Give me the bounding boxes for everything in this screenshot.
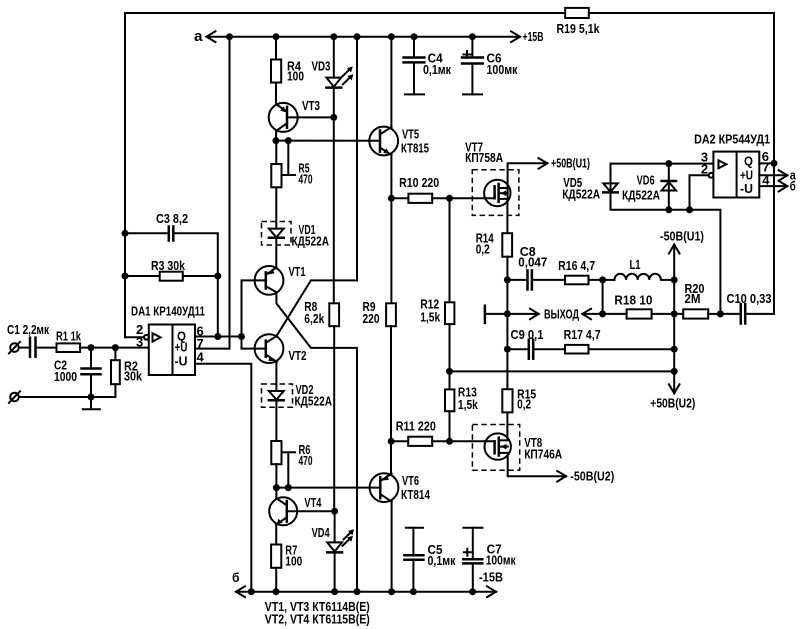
wire VT1/VT2 base column <box>242 280 266 348</box>
resistor R5 with tap <box>271 141 312 229</box>
resistor R2 <box>19 348 142 397</box>
capacitor C3 <box>125 212 218 337</box>
capacitor C6 polarized <box>462 37 518 95</box>
svg-text:КД522А: КД522А <box>562 188 600 202</box>
svg-text:КД522А: КД522А <box>622 189 660 203</box>
wire L1 tap down <box>599 280 606 318</box>
svg-text:КД522А: КД522А <box>295 395 333 409</box>
DA2 pin 4 output b <box>759 173 796 194</box>
svg-text:a: a <box>194 28 203 45</box>
R12/R13 column wires <box>446 195 453 445</box>
inductor L1 <box>599 258 678 284</box>
DA2 pin 3 <box>701 149 708 164</box>
svg-text:+15B: +15B <box>523 30 544 44</box>
node b / -15V rail <box>232 570 503 597</box>
svg-text:VT1: VT1 <box>289 265 306 279</box>
wire VT2 emitter down <box>275 361 278 391</box>
svg-text:C10 0,33: C10 0,33 <box>727 292 772 306</box>
svg-text:+U: +U <box>740 168 753 182</box>
svg-text:6,2k: 6,2k <box>304 312 324 326</box>
svg-text:100мк: 100мк <box>487 63 519 77</box>
resistor R15 <box>502 349 536 440</box>
node a / +15V rail <box>194 28 544 45</box>
svg-text:-50B(U1): -50B(U1) <box>660 229 704 243</box>
svg-text:R18 10: R18 10 <box>614 294 652 308</box>
resistor R1 <box>56 330 149 353</box>
resistor R3 <box>125 259 218 281</box>
svg-text:C3 8,2: C3 8,2 <box>156 212 188 226</box>
svg-text:VT3: VT3 <box>302 99 320 113</box>
ground <box>83 397 100 409</box>
svg-text:R12: R12 <box>420 298 439 312</box>
wire DA2 pin2 branch <box>690 173 714 210</box>
wire top feedback bus <box>125 13 774 337</box>
svg-text:C9 0,1: C9 0,1 <box>511 328 544 342</box>
svg-text:470: 470 <box>299 173 313 187</box>
resistor R17 <box>564 328 675 354</box>
node VT7 source / C8 <box>504 276 511 352</box>
svg-text:30k: 30k <box>124 370 142 384</box>
junction dot R11 left <box>388 438 395 445</box>
resistor R12 <box>420 298 454 325</box>
LED VD4 <box>312 511 355 591</box>
capacitor C4 <box>404 37 452 95</box>
capacitor C9 <box>507 328 565 359</box>
DA1 pin 3 <box>136 335 143 350</box>
op-amp DA2 KR544UD1 <box>694 133 770 198</box>
MOSFET VT7 KP758A <box>450 141 519 216</box>
junction dots input <box>88 344 119 400</box>
transistor VT1 <box>255 265 306 295</box>
svg-text:VD4: VD4 <box>312 526 330 540</box>
svg-text:0,2: 0,2 <box>517 398 531 412</box>
input terminal XS2 <box>9 391 20 403</box>
svg-text:R19 5,1k: R19 5,1k <box>557 22 600 36</box>
wire VT3 collector to VT5 base <box>273 137 381 144</box>
svg-text:470: 470 <box>299 454 313 468</box>
wire lower return line <box>450 370 675 372</box>
DA2 pin 7 output a <box>759 160 796 183</box>
resistor R9 <box>363 300 396 474</box>
transistor type note <box>265 600 370 627</box>
svg-text:+50B(U1): +50B(U1) <box>551 156 590 170</box>
resistor R7 <box>271 544 302 592</box>
svg-text:0,047: 0,047 <box>518 255 547 269</box>
wire VT6 emitter down <box>391 501 393 591</box>
junction dots feedback <box>122 230 246 340</box>
resistor R4 <box>271 37 304 105</box>
svg-text:0,2: 0,2 <box>476 243 490 257</box>
svg-text:+U: +U <box>175 341 188 355</box>
svg-text:б: б <box>232 570 240 585</box>
DA1 pin 6 <box>195 324 242 339</box>
svg-text:100мк: 100мк <box>486 554 517 568</box>
svg-text:-U: -U <box>740 182 753 196</box>
resistor R14 <box>476 199 512 280</box>
svg-text:-50B(U2): -50B(U2) <box>570 469 614 483</box>
output terminal bar <box>484 306 487 323</box>
capacitor C1 <box>7 323 57 357</box>
svg-text:б: б <box>790 179 796 193</box>
output VYHOD label with arrows <box>485 308 603 322</box>
svg-text:VD3: VD3 <box>312 60 331 74</box>
svg-text:КТ815: КТ815 <box>401 142 429 156</box>
resistor R20 <box>674 282 724 318</box>
svg-text:3: 3 <box>136 335 143 350</box>
resistor R18 <box>603 294 675 319</box>
svg-text:R16 4,7: R16 4,7 <box>558 259 595 273</box>
wire VT5 collector up <box>390 37 392 128</box>
diode VD1 KD522A <box>262 222 330 269</box>
capacitor C8 <box>507 245 565 290</box>
wire VT2 collector diagonal to x357 <box>276 37 357 337</box>
transistor VT6 KT814 <box>370 473 430 502</box>
input terminal XS1 <box>9 342 20 353</box>
svg-text:2: 2 <box>701 162 708 177</box>
wire VT5 emitter down <box>388 155 395 304</box>
svg-text:DA2 КР544УД1: DA2 КР544УД1 <box>694 133 770 147</box>
DA1 pin 7 <box>195 37 230 351</box>
svg-text:220: 220 <box>363 312 380 326</box>
capacitor C5 <box>404 528 456 592</box>
svg-text:1000: 1000 <box>54 370 77 384</box>
wire VT1 emitter diagonal to x357 <box>276 292 357 592</box>
diode VD5 KD522A <box>562 176 618 202</box>
svg-text:+50B(U2): +50B(U2) <box>650 396 695 410</box>
svg-text:КП758А: КП758А <box>465 151 503 165</box>
wire VT4 collector node to VT6 base <box>273 484 380 491</box>
capacitor C7 polarized <box>463 528 516 592</box>
rail -50V(U1) / +50V(U2) column <box>650 229 704 410</box>
transistor VT3 <box>269 99 334 141</box>
svg-text:4: 4 <box>762 173 770 188</box>
svg-text:ВЫХОД: ВЫХОД <box>544 308 579 322</box>
junction dot VT4 base/VD4 <box>331 508 338 515</box>
svg-text:Q: Q <box>744 155 753 169</box>
wire VT8 drain to -50V(U2) <box>508 453 615 483</box>
capacitor C10 <box>720 292 774 323</box>
svg-text:1,5k: 1,5k <box>420 311 440 325</box>
op-amp DA1 KR140UD11 <box>131 305 205 376</box>
svg-text:R3 30k: R3 30k <box>151 259 185 273</box>
capacitor C2 <box>54 348 101 397</box>
resistor R10 <box>391 176 449 203</box>
wire VT7 drain to +50V(U1) <box>508 156 590 198</box>
DA2 pin 6 <box>759 149 777 167</box>
svg-text:КД522А: КД522А <box>292 235 330 249</box>
transistor VT2 <box>255 334 307 363</box>
svg-text:-U: -U <box>175 354 188 368</box>
svg-text:VT2: VT2 <box>289 349 307 363</box>
svg-text:1,5k: 1,5k <box>458 398 478 412</box>
resistor R16 <box>558 259 603 284</box>
svg-text:КТ814: КТ814 <box>401 488 430 502</box>
junction dot VT3 base/VD3 <box>330 114 337 303</box>
junction dots on +15V rail <box>226 33 476 40</box>
svg-text:VT6: VT6 <box>402 474 419 488</box>
svg-text:C1 2,2мк: C1 2,2мк <box>7 323 50 337</box>
svg-text:R1 1k: R1 1k <box>56 330 81 344</box>
svg-text:100: 100 <box>287 70 304 84</box>
svg-text:2M: 2M <box>685 292 701 306</box>
svg-text:4: 4 <box>197 350 205 365</box>
svg-text:0,1мк: 0,1мк <box>428 554 457 568</box>
svg-text:0,1мк: 0,1мк <box>423 63 452 77</box>
svg-text:КП746А: КП746А <box>524 447 562 461</box>
DA2 pin 2 <box>701 162 708 177</box>
diode VD6 KD522A <box>622 164 676 210</box>
DA1 pin 2 <box>125 322 149 340</box>
svg-text:VT2, VT4 КТ6115В(Е): VT2, VT4 КТ6115В(Е) <box>265 613 370 627</box>
svg-text:VT4: VT4 <box>304 496 321 510</box>
transistor VT4 <box>269 488 334 545</box>
svg-text:VD6: VD6 <box>637 173 655 187</box>
svg-text:DA1 КР140УД11: DA1 КР140УД11 <box>131 305 205 319</box>
resistor R8 <box>304 300 339 511</box>
DA1 pin 4 <box>195 350 251 592</box>
svg-text:R17 4,7: R17 4,7 <box>564 328 601 342</box>
svg-text:L1: L1 <box>630 258 641 272</box>
svg-text:-15B: -15B <box>479 571 503 585</box>
resistor R19 <box>557 8 600 36</box>
LED VD3 <box>312 37 354 118</box>
svg-text:R10 220: R10 220 <box>399 176 439 190</box>
svg-text:R11 220: R11 220 <box>396 420 436 434</box>
resistor R13 <box>445 386 478 413</box>
resistor R11 <box>391 420 449 446</box>
MOSFET VT8 KP746A <box>450 425 563 471</box>
svg-text:100: 100 <box>285 554 302 568</box>
junction dots on -15V rail <box>248 588 476 595</box>
svg-text:VT5: VT5 <box>402 127 419 141</box>
diode VD2 KD522A <box>262 383 333 441</box>
transistor VT5 KT815 <box>369 127 429 156</box>
resistor R6 with tap <box>271 441 312 488</box>
wire DA2 input loop <box>611 160 721 314</box>
